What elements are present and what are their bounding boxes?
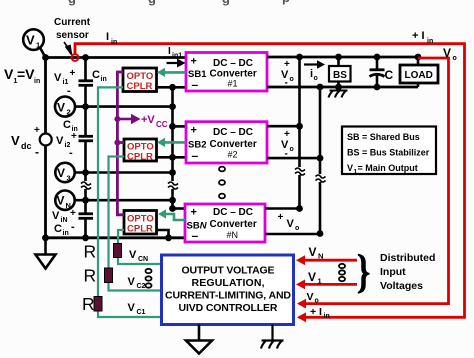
- node opto3 ground junction: [165, 234, 172, 241]
- break symbol on stack bus: [168, 182, 178, 189]
- svg-text:SB = Shared Bus: SB = Shared Bus: [347, 132, 420, 142]
- wire series stack bus: [171, 87, 174, 208]
- resistor R3 bottom: [94, 297, 102, 312]
- svg-text:Converter: Converter: [210, 139, 257, 150]
- wire V1 to bus: [41, 49, 46, 58]
- svg-text:#1: #1: [228, 79, 238, 89]
- svg-text:Converter: Converter: [210, 219, 257, 230]
- svg-text:in: in: [111, 39, 117, 46]
- label V1: [308, 270, 322, 286]
- svg-text:#N: #N: [227, 230, 239, 240]
- svg-text:CPLR: CPLR: [127, 81, 153, 92]
- svg-text:V: V: [287, 218, 295, 230]
- resistor R1 top: [114, 244, 122, 258]
- svg-text:sensor: sensor: [56, 30, 89, 41]
- svg-text:V: V: [4, 66, 14, 82]
- wire conv1 top output: [267, 56, 418, 59]
- svg-text:dc: dc: [21, 141, 32, 151]
- svg-text:in1: in1: [172, 53, 182, 60]
- svg-text:I: I: [106, 31, 109, 43]
- svg-text:o: o: [295, 225, 299, 232]
- svg-text:OUTPUT VOLTAGE: OUTPUT VOLTAGE: [182, 265, 275, 277]
- svg-text:1: 1: [36, 41, 40, 50]
- svg-text:Voltages: Voltages: [380, 280, 423, 292]
- break symbol on plus bus: [295, 168, 305, 175]
- node bottom bus junction: [317, 84, 324, 91]
- node conv2 plus junction: [169, 123, 176, 130]
- svg-text:in: in: [34, 78, 40, 85]
- svg-text:in: in: [101, 76, 107, 83]
- label Vo conv2: [281, 129, 294, 160]
- svg-text:–: –: [192, 78, 199, 92]
- node conv2 minus junction: [169, 154, 176, 161]
- svg-text:V: V: [128, 302, 136, 314]
- svg-text:–: –: [192, 229, 199, 243]
- wire V2 row: [75, 105, 173, 108]
- label V1=Vin: [4, 66, 40, 85]
- svg-text:+: +: [70, 68, 76, 79]
- svg-text:-: -: [285, 149, 288, 160]
- svg-text:I: I: [168, 46, 171, 57]
- svg-text:g: g: [148, 0, 156, 6]
- wire teal sense1 row VC1: [98, 315, 162, 318]
- node convN plus junction: [169, 205, 176, 212]
- svg-text:g: g: [222, 0, 230, 6]
- svg-text:+: +: [191, 56, 197, 68]
- dc-dc converter 2: [186, 122, 267, 163]
- ellipsis between converters: [219, 167, 225, 199]
- svg-text:CC: CC: [156, 120, 168, 129]
- svg-text:DC – DC: DC – DC: [213, 58, 253, 69]
- voltmeter VN: [55, 191, 74, 211]
- svg-text:1: 1: [318, 277, 322, 286]
- svg-text:+: +: [278, 212, 284, 223]
- label VCN: [129, 249, 148, 263]
- wire conv2 top output: [267, 125, 300, 128]
- svg-text:V: V: [57, 166, 65, 180]
- wire teal sense1: [98, 87, 123, 316]
- svg-text:V: V: [308, 270, 316, 284]
- ground controller left: [186, 325, 212, 354]
- label Vo conv1: [281, 59, 294, 89]
- wire top input bus: [46, 56, 186, 59]
- wire conv2 bottom output: [267, 157, 320, 160]
- svg-text:Distributed: Distributed: [380, 252, 435, 264]
- svg-text:Current: Current: [54, 17, 91, 28]
- opto-coupler U2: [124, 139, 157, 163]
- capacitor C output: [370, 54, 394, 91]
- teal arrow conv2 SB to opto2: [157, 138, 186, 147]
- opto-coupler U1: [123, 68, 157, 92]
- capacitor Cin1: [54, 68, 107, 97]
- svg-text:+: +: [191, 207, 197, 219]
- svg-text:V: V: [307, 291, 314, 303]
- svg-text:+: +: [34, 125, 40, 136]
- label Vo convN: [278, 212, 300, 240]
- wire teal sense2: [109, 157, 162, 291]
- wire red Iin sense loop: [75, 44, 465, 318]
- svg-text:o: o: [453, 55, 457, 62]
- svg-text:DC – DC: DC – DC: [213, 127, 253, 138]
- svg-text:C: C: [92, 69, 100, 81]
- svg-text:UIVD CONTROLLER: UIVD CONTROLLER: [179, 302, 278, 314]
- svg-text:R: R: [84, 266, 97, 286]
- svg-text:o: o: [290, 76, 294, 83]
- node Vcc junction: [114, 116, 120, 122]
- svg-text:V: V: [26, 33, 35, 48]
- svg-text:-: -: [285, 78, 288, 89]
- svg-text:BS: BS: [333, 70, 347, 81]
- label io with arrow: [304, 60, 325, 82]
- wire opto1 output to conv1 minus: [157, 86, 187, 89]
- svg-text:g: g: [68, 0, 76, 6]
- voltmeter V1: [23, 29, 44, 50]
- svg-text:-: -: [35, 145, 39, 159]
- break symbol on minus bus: [316, 175, 326, 182]
- node conv1 minus junction: [169, 84, 176, 91]
- svg-text:V: V: [347, 163, 353, 173]
- svg-text:o: o: [290, 146, 294, 153]
- wire convN plus: [173, 207, 186, 210]
- svg-text:R: R: [84, 242, 97, 262]
- label +Iin top right: [412, 30, 433, 45]
- current sensor: [72, 54, 79, 61]
- svg-text:-: -: [279, 229, 282, 240]
- node ground-bus junctions: [42, 234, 49, 241]
- svg-text:in: in: [427, 38, 433, 45]
- svg-text:V: V: [56, 135, 64, 147]
- resistor R2 middle: [105, 268, 113, 283]
- svg-text:N: N: [318, 252, 323, 261]
- voltmeter V2: [55, 97, 75, 117]
- node junction Cin top: [82, 54, 89, 61]
- svg-text:= Main Output: = Main Output: [358, 163, 418, 173]
- svg-text:in: in: [63, 230, 69, 237]
- wire V3 row: [75, 171, 173, 174]
- label Iin1 with arrow: [167, 46, 186, 68]
- svg-text:+: +: [71, 131, 77, 142]
- wire purple stub to U2: [117, 141, 124, 144]
- svg-text:2: 2: [67, 108, 71, 117]
- capacitor Cin2: [56, 119, 93, 159]
- svg-text:-: -: [71, 221, 75, 233]
- svg-text:REGULATION,: REGULATION,: [192, 277, 265, 289]
- svg-text:–: –: [192, 149, 199, 163]
- svg-text:+ I: + I: [310, 306, 322, 318]
- ground left: [36, 238, 56, 269]
- label Vo top right: [443, 46, 457, 62]
- teal arrow conv1 SB to opto1: [157, 68, 186, 77]
- wire convN bottom output: [265, 233, 320, 236]
- svg-text:DC – DC: DC – DC: [213, 207, 253, 218]
- break symbol on cap string: [81, 182, 91, 189]
- label +Iin input: [310, 306, 330, 320]
- svg-text:V: V: [11, 133, 20, 148]
- label Iin top: [106, 31, 117, 46]
- label Distributed Input Voltages: [380, 252, 435, 292]
- label VC2: [128, 276, 146, 290]
- node purple U2 junction: [114, 140, 120, 146]
- svg-text:V: V: [128, 276, 136, 288]
- wire red Vo sense: [299, 58, 449, 304]
- wire output bus vertical minus: [319, 87, 322, 234]
- svg-text:LOAD: LOAD: [405, 70, 433, 81]
- controller box: [162, 255, 294, 325]
- svg-text:C1: C1: [137, 309, 146, 316]
- wire opto3 output down to ground bus: [157, 230, 169, 238]
- svg-text:+: +: [191, 125, 197, 137]
- svg-text:CPLR: CPLR: [127, 152, 153, 163]
- svg-text:-: -: [67, 85, 71, 97]
- wire teal sense3: [118, 230, 162, 264]
- svg-text:3: 3: [67, 174, 71, 183]
- teal arrow convN SB to opto3: [158, 209, 185, 220]
- svg-text:p: p: [282, 0, 290, 5]
- wire ground bus: [46, 236, 185, 239]
- wire output bus vertical plus: [298, 57, 301, 209]
- label VN: [309, 245, 324, 261]
- ground BS rake: [329, 87, 348, 98]
- wire convN top output: [265, 207, 300, 210]
- svg-text:+V: +V: [141, 114, 155, 126]
- label VC1: [128, 302, 146, 316]
- red arrow VN input: [296, 255, 357, 265]
- load: [400, 54, 438, 87]
- node junction V1: [42, 54, 49, 61]
- svg-text:CPLR: CPLR: [127, 224, 153, 235]
- dc-dc converter 1: [186, 53, 267, 92]
- wire input cap string: [84, 58, 87, 238]
- svg-text:V: V: [52, 210, 60, 222]
- svg-text:C: C: [385, 68, 394, 82]
- svg-text:Input: Input: [380, 266, 406, 278]
- opto-coupler U3: [124, 211, 157, 235]
- svg-text:BS = Bus Stabilizer: BS = Bus Stabilizer: [347, 148, 430, 158]
- svg-text:V: V: [57, 101, 65, 115]
- label Current sensor: [54, 17, 91, 55]
- ellipsis between VC2 and VCN: [146, 269, 152, 288]
- svg-text:R: R: [82, 294, 95, 314]
- red arrowhead Vo input: [297, 299, 306, 309]
- svg-text:V: V: [443, 46, 451, 60]
- svg-text:CURRENT-LIMITING, AND: CURRENT-LIMITING, AND: [165, 290, 291, 302]
- svg-text:+: +: [70, 208, 76, 219]
- svg-text:C: C: [63, 119, 71, 131]
- wire conv2 plus: [173, 125, 187, 128]
- svg-text:o: o: [315, 298, 319, 305]
- capacitor CinN: [52, 208, 93, 237]
- svg-text:V: V: [54, 72, 62, 84]
- dc-dc converter N: [185, 204, 265, 243]
- svg-text:o: o: [314, 75, 318, 82]
- wire VN row: [75, 199, 173, 202]
- label +Vcc with arrow: [117, 114, 167, 129]
- svg-text:-: -: [69, 147, 73, 159]
- svg-text:#2: #2: [228, 150, 238, 160]
- red arrow V1 input: [296, 280, 357, 290]
- svg-text:V: V: [57, 194, 65, 208]
- svg-text:CN: CN: [138, 256, 148, 263]
- svg-text:V: V: [129, 249, 137, 261]
- svg-text:+ I: + I: [412, 30, 425, 42]
- wire conv1 bottom output: [267, 86, 418, 89]
- ellipsis between VN and V1 arrows: [339, 264, 345, 281]
- brace distributed inputs: [358, 255, 370, 293]
- source Vdc: [11, 58, 52, 238]
- wire opto2 output to conv2 minus: [157, 156, 187, 159]
- svg-text:=V: =V: [17, 66, 35, 82]
- svg-text:V: V: [309, 245, 317, 259]
- red arrowhead Iin input: [297, 312, 306, 322]
- voltmeter V3: [55, 163, 74, 183]
- wire Vcc purple net: [117, 72, 124, 215]
- node top bus junction: [296, 54, 303, 61]
- cropped caption descenders: [68, 0, 290, 6]
- svg-text:in: in: [324, 313, 330, 320]
- label Vo input: [307, 291, 319, 305]
- svg-text:C: C: [54, 223, 62, 235]
- svg-text:C2: C2: [137, 283, 146, 290]
- bus stabilizer BS: [329, 54, 351, 91]
- ground controller right rake: [261, 325, 284, 349]
- legend box: [342, 127, 436, 176]
